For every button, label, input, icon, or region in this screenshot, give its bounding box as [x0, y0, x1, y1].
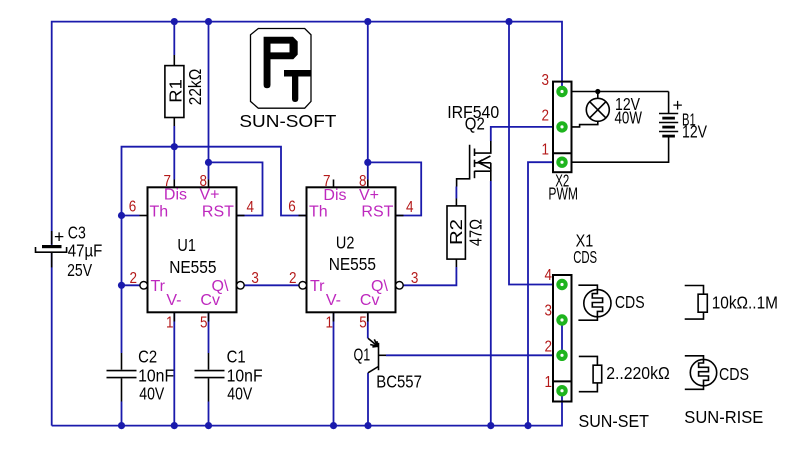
label X1: [576, 230, 594, 250]
transistor Q1 BC557: [368, 338, 386, 373]
svg-text:1: 1: [326, 315, 334, 332]
label R2: [446, 219, 466, 245]
svg-text:Th: Th: [309, 204, 328, 221]
svg-text:C2: C2: [138, 346, 157, 366]
wire lamp top black: [572, 91, 669, 93]
wire R1 top feed: [173, 22, 175, 55]
svg-text:U2: U2: [336, 233, 355, 253]
svg-text:NE555: NE555: [329, 254, 376, 274]
node junction U2 pin8 RST: [364, 159, 371, 166]
svg-text:10nF: 10nF: [138, 365, 174, 385]
svg-text:RST: RST: [361, 204, 393, 221]
node junction U1 pin8 RST: [205, 159, 212, 166]
capacitor C2: [107, 353, 137, 402]
node junction U1 Tr: [118, 282, 125, 289]
pin bubble U2 Tr: [299, 282, 307, 290]
op-amp U2 body NE555: [299, 180, 404, 322]
pin number U1-2: [130, 270, 138, 287]
battery B1: [572, 92, 679, 163]
svg-text:CDS: CDS: [615, 292, 645, 312]
value 22k: [185, 69, 205, 106]
pin name U1 RST: [202, 204, 234, 221]
wire U1 RST loop: [209, 162, 263, 215]
resistor annotation 10k..1M: [685, 286, 708, 320]
value 25V: [67, 260, 92, 280]
value 2..220k: [606, 363, 670, 383]
value 40V C1: [227, 383, 252, 403]
pin bubble U2 Q: [396, 282, 404, 290]
pad X1-4: [556, 279, 567, 290]
pin name U2 Dis: [323, 187, 346, 204]
svg-text:Q1: Q1: [354, 345, 371, 365]
svg-text:22kΩ: 22kΩ: [185, 69, 205, 106]
svg-text:+: +: [54, 227, 64, 247]
wire C1 to ground: [208, 402, 210, 426]
pin name U1 Cv: [200, 292, 220, 309]
pin bubble U1 Q: [237, 282, 245, 290]
label U2: [336, 233, 355, 253]
svg-text:10nF: 10nF: [227, 365, 263, 385]
wire top supply rail: [52, 22, 562, 245]
svg-text:SUN-SET: SUN-SET: [579, 411, 650, 431]
svg-text:4: 4: [406, 199, 414, 216]
lamp 12V 40W: [572, 92, 610, 127]
logo letter P: [264, 37, 298, 88]
pin number X2-3: [542, 72, 550, 89]
photoresistor CDS sunset: [578, 285, 611, 320]
wire Q2 source to ground: [490, 181, 492, 426]
svg-text:3: 3: [542, 72, 550, 89]
svg-text:BC557: BC557: [376, 371, 422, 391]
pin number X1-2: [545, 339, 553, 356]
svg-text:40W: 40W: [615, 108, 643, 128]
svg-text:5: 5: [200, 315, 208, 332]
node junction U1 pin8 top: [205, 18, 212, 25]
pin number U2-8: [359, 173, 367, 190]
svg-text:R2: R2: [446, 219, 466, 245]
wire Q1 collector to ground: [367, 373, 369, 426]
resistor R2: [447, 199, 465, 268]
svg-text:RST: RST: [202, 204, 234, 221]
label C2: [138, 346, 157, 366]
plus battery: [673, 95, 683, 115]
wire U2 Q to R2: [403, 267, 457, 285]
svg-text:Dis: Dis: [323, 187, 346, 204]
pin number U1-8: [200, 173, 208, 190]
pin name U2 RST: [361, 204, 393, 221]
value 10nF C2: [138, 365, 174, 385]
svg-text:4: 4: [247, 199, 255, 216]
value 40V C2: [139, 383, 164, 403]
svg-text:1: 1: [542, 142, 550, 159]
label IRF540: [447, 102, 499, 122]
label PWM: [548, 183, 578, 203]
svg-text:2: 2: [542, 108, 550, 125]
svg-text:Tr: Tr: [151, 278, 166, 295]
value BC557: [376, 371, 422, 391]
wire Q1 base to X1 pad2: [386, 354, 553, 356]
svg-text:V-: V-: [326, 292, 341, 309]
logo letter T: [284, 70, 311, 102]
svg-text:2: 2: [545, 339, 553, 356]
node junction ground C1: [205, 422, 212, 429]
svg-text:R1: R1: [165, 79, 185, 103]
svg-text:Dis: Dis: [164, 187, 187, 204]
pin number U1-7: [164, 173, 172, 190]
pad X2-2: [556, 121, 567, 132]
value NE555 U1: [169, 257, 216, 277]
wire R2 to Q2 gate: [455, 187, 457, 199]
pin number U1-5: [200, 315, 208, 332]
pin number U1-6: [129, 199, 137, 216]
svg-text:5: 5: [359, 315, 367, 332]
pin number X1-4: [545, 267, 553, 284]
label CDS sunrise: [719, 364, 749, 384]
wire C2 to ground: [121, 402, 123, 426]
svg-text:3: 3: [545, 303, 553, 320]
value lamp 40W: [615, 108, 643, 128]
wire Dis-Th link horizontal: [122, 147, 307, 216]
pin name U2 V+: [359, 187, 379, 204]
svg-text:2..220kΩ: 2..220kΩ: [606, 363, 670, 383]
svg-text:SUN-SOFT: SUN-SOFT: [239, 111, 336, 131]
wire R1 bottom to U1 pin7: [173, 126, 175, 180]
value 47uF: [68, 241, 103, 261]
label B1: [682, 109, 696, 129]
svg-text:CDS: CDS: [573, 247, 597, 267]
op-amp U1 body NE555: [140, 180, 245, 322]
value 10nF C1: [227, 365, 263, 385]
pad X1-1: [556, 385, 567, 396]
wire U1 pin5 to C1: [208, 312, 210, 353]
pin number X2-1: [542, 142, 550, 159]
pad X1-2: [556, 350, 567, 361]
pin number U1-4: [247, 199, 255, 216]
wire U1 pin1 to ground: [173, 312, 175, 425]
wire U1 Th: [122, 215, 140, 217]
pin number X2-2: [542, 108, 550, 125]
value lamp 12V: [615, 94, 640, 114]
value battery 12V: [682, 122, 707, 142]
svg-text:Cv: Cv: [200, 292, 220, 309]
svg-text:6: 6: [129, 199, 137, 216]
pad X2-3: [556, 86, 567, 97]
plus C3: [54, 227, 64, 247]
label C3: [68, 223, 86, 243]
node lamp junction: [595, 89, 600, 94]
svg-text:V+: V+: [359, 187, 379, 204]
wire C2 branch vertical: [121, 216, 123, 354]
wire ground rail: [52, 391, 562, 426]
svg-text:CDS: CDS: [719, 364, 749, 384]
pin name U2 Tr: [310, 278, 325, 295]
svg-text:Cv: Cv: [360, 292, 380, 309]
label SUN-SOFT: [239, 111, 336, 131]
value 47ohm: [466, 219, 486, 246]
resistor R1: [165, 55, 184, 126]
svg-text:1: 1: [166, 315, 174, 332]
trimmer resistor annotation 2..220k: [579, 356, 602, 391]
label Q2: [465, 114, 485, 134]
pin number U2-3: [411, 270, 419, 287]
wire Q2 drain to X2 pad2: [491, 127, 553, 141]
pin number U1-3: [251, 270, 259, 287]
pad X2-1: [556, 157, 567, 168]
wire U1 Q to U2 Tr: [244, 284, 300, 286]
node junction R1 bottom: [171, 143, 178, 150]
svg-text:PWM: PWM: [548, 183, 578, 203]
svg-text:4: 4: [545, 267, 553, 284]
pin name U1 V-: [166, 292, 181, 309]
node junction R1 top: [171, 18, 178, 25]
wire X2 pad1 to ground: [528, 162, 553, 425]
pin name U1 Q: [212, 278, 229, 295]
pin number U2-6: [288, 199, 296, 216]
wire U2 pin1 to ground: [333, 312, 335, 425]
wire U2 RST loop: [368, 162, 421, 215]
svg-text:C1: C1: [227, 346, 246, 366]
svg-text:40V: 40V: [139, 383, 164, 403]
svg-text:47Ω: 47Ω: [466, 219, 486, 246]
pin number X1-1: [545, 374, 553, 391]
svg-text:V+: V+: [200, 187, 220, 204]
node junction X1 pad4 drop: [505, 18, 512, 25]
node junction ground C2: [118, 422, 125, 429]
svg-text:12V: 12V: [682, 122, 707, 142]
node junction ground X2 pad1: [524, 422, 531, 429]
pin number U2-2: [289, 270, 297, 287]
label R1: [165, 79, 185, 103]
svg-text:47µF: 47µF: [68, 241, 103, 261]
svg-text:2: 2: [130, 270, 138, 287]
node junction U2 pin8 top: [364, 18, 371, 25]
svg-text:Q2: Q2: [465, 114, 485, 134]
label SUN-SET: [579, 411, 650, 431]
value 10k..1M: [712, 293, 778, 313]
svg-text:40V: 40V: [227, 383, 252, 403]
pin name U1 Tr: [151, 278, 166, 295]
svg-text:Th: Th: [150, 204, 169, 221]
svg-text:SUN-RISE: SUN-RISE: [684, 407, 763, 427]
pin name U1 V+: [200, 187, 220, 204]
label X2: [555, 171, 569, 191]
svg-text:V-: V-: [166, 292, 181, 309]
svg-text:25V: 25V: [67, 260, 92, 280]
node junction ground Q1: [364, 422, 371, 429]
svg-text:3: 3: [411, 270, 419, 287]
svg-text:NE555: NE555: [169, 257, 216, 277]
wire left rail bottom (C3 to ground): [51, 253, 53, 426]
node junction U1 Th: [118, 212, 125, 219]
svg-text:Tr: Tr: [310, 278, 325, 295]
svg-text:6: 6: [288, 199, 296, 216]
value NE555 U2: [329, 254, 376, 274]
pin number U2-1: [326, 315, 334, 332]
pin number U2-5: [359, 315, 367, 332]
wire U2 pin8 to top rail: [367, 22, 369, 180]
wire top rail to X1 pad4: [509, 22, 553, 285]
label CDS X1: [573, 247, 597, 267]
capacitor C3 electrolytic: [36, 231, 67, 267]
pin name U1 Th: [150, 204, 169, 221]
logo octagon: [251, 29, 312, 109]
pin name U1 Dis: [164, 187, 187, 204]
pin number X1-3: [545, 303, 553, 320]
pin number U2-4: [406, 199, 414, 216]
pin number U2-7: [323, 173, 331, 190]
pin name U2 Cv: [360, 292, 380, 309]
node junction ground U2 pin1: [330, 422, 337, 429]
svg-text:3: 3: [251, 270, 259, 287]
pad X1-3: [556, 314, 567, 325]
pin bubble U1 Tr: [140, 282, 148, 290]
svg-text:2: 2: [289, 270, 297, 287]
wire U1 pin8 to top rail: [208, 22, 210, 180]
label Q1: [354, 345, 371, 365]
label C1: [227, 346, 246, 366]
node junction ground U1 pin1: [171, 422, 178, 429]
transistor Q2 IRF540 mosfet: [457, 141, 491, 187]
capacitor C1: [195, 353, 225, 402]
pin name U2 Q: [371, 278, 388, 295]
wire X1 pad3 to pad2 link: [561, 320, 563, 355]
svg-text:1: 1: [545, 374, 553, 391]
pin name U2 Th: [309, 204, 328, 221]
photoresistor CDS sunrise: [685, 356, 717, 390]
svg-text:10kΩ..1M: 10kΩ..1M: [712, 293, 778, 313]
label SUN-RISE: [684, 407, 763, 427]
connector X1: [553, 275, 572, 402]
label CDS sunset: [615, 292, 645, 312]
pin number U1-1: [166, 315, 174, 332]
wire U2 pin5 to Q1 emitter: [367, 312, 369, 338]
wire U1 Tr: [122, 284, 141, 286]
svg-text:U1: U1: [177, 235, 196, 255]
node junction ground Q2: [487, 422, 494, 429]
pin name U2 V-: [326, 292, 341, 309]
connector X2: [553, 82, 572, 173]
label U1: [177, 235, 196, 255]
